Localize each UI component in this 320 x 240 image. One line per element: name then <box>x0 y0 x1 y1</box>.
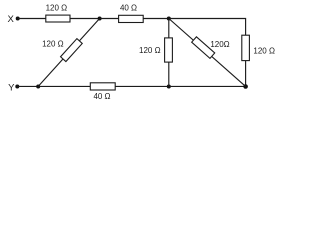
wire Y to node C <box>17 85 38 87</box>
svg-text:120 Ω: 120 Ω <box>139 46 161 55</box>
svg-text:120 Ω: 120 Ω <box>46 4 68 13</box>
wire node B to node E (right diagonal) <box>169 19 246 87</box>
svg-text:40 Ω: 40 Ω <box>93 92 110 101</box>
node X <box>16 17 20 21</box>
resistor R3 120ohm body (left diagonal) <box>61 39 83 62</box>
wire R1 to node A <box>70 18 100 20</box>
wire node D to node E <box>169 85 246 87</box>
wire X to R1 <box>18 18 46 20</box>
node A <box>98 17 102 21</box>
node D <box>167 85 171 89</box>
wire node C to node A (left diagonal) <box>38 19 99 87</box>
wire R5 to node D <box>168 62 170 86</box>
node B <box>167 17 171 21</box>
wire node B to top-right corner and down <box>169 19 246 36</box>
svg-text:X: X <box>8 14 15 25</box>
svg-text:40 Ω: 40 Ω <box>120 4 137 13</box>
svg-text:Y: Y <box>8 83 15 94</box>
wire R2 to node B <box>143 18 169 20</box>
resistor R7 120ohm body (right vertical) <box>242 35 250 60</box>
wire node B down to R5 <box>168 19 170 38</box>
node C <box>36 85 40 89</box>
wire R7 to node E <box>245 61 247 87</box>
svg-text:120 Ω: 120 Ω <box>253 46 275 55</box>
resistor R2 40ohm body <box>119 15 144 22</box>
wire R4 to node D <box>115 85 169 87</box>
wire node C to R4 <box>38 85 90 87</box>
node E <box>243 84 248 89</box>
resistor R4 40ohm body (bottom) <box>90 83 115 90</box>
wire node A to R2 <box>100 18 119 20</box>
svg-text:120Ω: 120Ω <box>210 40 229 49</box>
resistor R1 120ohm body <box>46 15 70 22</box>
resistor R5 120ohm body (middle vertical) <box>165 38 173 62</box>
resistor R6 120ohm body (right diagonal) <box>192 37 215 59</box>
svg-text:120 Ω: 120 Ω <box>42 40 64 49</box>
node Y <box>15 85 19 89</box>
